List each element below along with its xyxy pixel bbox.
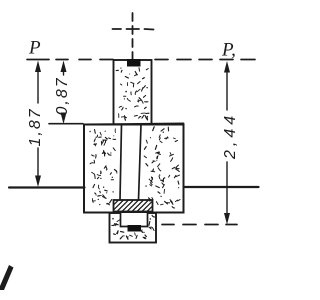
dimension 1,87 line with arrows: [37, 71, 39, 177]
centerline cross horizontal dashes: [113, 28, 154, 31]
stipple column: [116, 68, 149, 121]
extension tick for 0,87: [49, 123, 83, 125]
dimension 2,44 line with arrows: [226, 72, 228, 214]
slot left wall: [120, 125, 122, 201]
svg-text:2,44: 2,44: [222, 112, 239, 160]
big block (container): [84, 125, 184, 213]
ground line left: [9, 186, 85, 188]
big block top edge under column: [84, 124, 184, 125]
column (top block): [114, 60, 152, 125]
centerline vertical dashed: [132, 13, 134, 60]
svg-text:P: P: [28, 38, 41, 59]
recess in bottom block: [121, 213, 148, 227]
dimension 0,87 line with arrows: [61, 61, 67, 73]
black sensor in recess: [128, 225, 142, 232]
stipple left region: [89, 129, 117, 205]
anchor plate hatched: [102, 200, 164, 212]
stipple right region: [144, 127, 180, 208]
svg-text:P,: P,: [221, 40, 236, 61]
black cap on column: [127, 59, 141, 67]
stipple bottom block: [112, 215, 156, 239]
slot right wall: [139, 125, 142, 201]
bottom block: [110, 213, 157, 243]
ground line right: [184, 186, 259, 188]
corner ink mark bottom left: [0, 265, 14, 290]
svg-text:0,87: 0,87: [54, 76, 71, 115]
load line P left (solid then dashed): [27, 59, 113, 61]
dashed datum line bottom right: [162, 224, 237, 226]
svg-text:1,87: 1,87: [27, 107, 44, 146]
load line P right dashed: [155, 59, 255, 61]
